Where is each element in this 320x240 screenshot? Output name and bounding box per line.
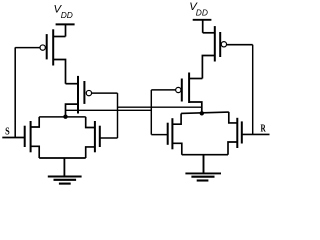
pmos M5 bubble: [221, 42, 226, 47]
wire right FB vertical: [150, 90, 152, 135]
wire M8 drain stub from output: [229, 112, 238, 123]
wire upper cross (right output to left FB): [118, 106, 202, 108]
ground right: [185, 172, 221, 174]
pmos M2 gate bar: [83, 81, 85, 104]
VDD label right: [189, 1, 208, 17]
R label: [261, 124, 267, 135]
wire M8 source stub: [228, 142, 237, 155]
wire M3 drain stub: [31, 117, 40, 127]
wire S vertical: [14, 47, 16, 137]
svg-text:R: R: [261, 124, 267, 135]
wire M7 source stub: [172, 143, 181, 154]
nmos M8 channel: [236, 118, 238, 148]
svg-text:DD: DD: [196, 7, 208, 17]
pmos M6 channel: [188, 73, 190, 104]
wire M1 gate lead: [15, 47, 40, 49]
ground left: [48, 176, 82, 178]
wire left source rail: [39, 157, 85, 159]
pmos M2 channel: [77, 76, 79, 114]
pmos M2 bubble: [86, 90, 91, 95]
wire M6 source stub: [189, 78, 202, 80]
svg-text:DD: DD: [61, 10, 73, 20]
wire right output node: [181, 112, 229, 113]
pmos M6 gate bar: [181, 79, 183, 102]
pmos M6 bubble: [176, 87, 181, 92]
VDD rail left: [56, 23, 75, 25]
wire VDD stem right: [202, 20, 204, 33]
S label: [5, 126, 10, 138]
wire M7 gate lead: [151, 134, 167, 136]
wire VDD stem left: [65, 24, 67, 36]
wire right ground stem: [203, 155, 205, 174]
VDD rail right: [193, 19, 212, 21]
wire source stub M1: [53, 36, 65, 38]
wire R input: [242, 133, 270, 135]
node Q1 dot: [63, 115, 67, 119]
wire M2 source stub: [66, 83, 79, 85]
wire M2 gate lead to FB vertical: [91, 92, 117, 94]
pmos M1 bubble: [40, 45, 45, 50]
pmos M1 channel: [52, 29, 54, 65]
nmos M7 gate bar: [167, 123, 169, 145]
wire M6 gate lead to FB vertical: [151, 89, 176, 91]
wire M1 drain stub: [53, 60, 65, 84]
wire M2 drain stub: [66, 104, 79, 117]
wire M5 gate lead: [226, 44, 252, 46]
wire left output node: [39, 116, 85, 118]
nmos M8 gate bar: [241, 121, 243, 143]
svg-text:S: S: [5, 126, 10, 138]
wire M3 source stub: [31, 146, 40, 158]
nmos M3 channel: [30, 121, 32, 152]
wire M5 drain stub: [202, 56, 214, 79]
wire M4 drain stub: [86, 117, 95, 128]
wire M4 source stub: [86, 147, 95, 158]
pmos M1 gate bar: [46, 34, 48, 59]
wire R vertical: [252, 45, 254, 135]
wire right source rail: [182, 154, 228, 156]
pmos M5 channel: [214, 26, 216, 61]
pmos M5 gate bar: [219, 32, 221, 57]
nmos M4 channel: [94, 121, 96, 152]
nmos M4 gate bar: [99, 126, 101, 147]
wire M6 drain stub: [189, 102, 202, 113]
wire M4 gate lead: [100, 137, 118, 139]
VDD label left: [54, 3, 73, 20]
wire lower cross (left output to right FB): [66, 109, 152, 111]
nmos M3 gate bar: [24, 126, 26, 147]
wire source stub M5: [203, 32, 215, 34]
wire M7 drain stub: [172, 114, 181, 125]
wire left ground stem: [63, 158, 65, 177]
node Q2 dot: [200, 111, 204, 115]
wire S input: [2, 137, 24, 139]
nmos M7 channel: [171, 118, 173, 149]
wire left FB vertical: [117, 93, 119, 138]
